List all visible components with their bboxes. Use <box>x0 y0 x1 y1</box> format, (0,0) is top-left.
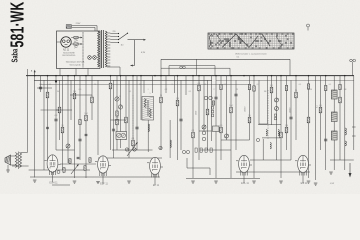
wire W56 <box>315 76 317 180</box>
wire W57 <box>320 76 322 150</box>
coil L5 <box>148 124 149 132</box>
choke D2 <box>331 112 337 122</box>
resistor R35 <box>198 85 201 91</box>
wire W4 <box>47 76 49 168</box>
svg-text:110/125/150/220V~: 110/125/150/220V~ <box>62 55 76 57</box>
resistor R54 <box>295 92 298 98</box>
wire W14 <box>97 80 99 155</box>
tube ECL 11 <box>236 155 252 183</box>
resistor R30 <box>71 37 80 39</box>
third bus <box>40 84 250 86</box>
resistor R40 <box>220 127 223 133</box>
IF transformer B1 <box>142 97 154 121</box>
ground antenna <box>6 169 10 171</box>
wire W52 <box>286 76 288 150</box>
wire drop 196 <box>196 59 198 75</box>
wire W9 <box>70 80 72 120</box>
wire W2 <box>40 76 42 92</box>
capacitor C-x3 <box>46 126 49 128</box>
svg-text:110: 110 <box>121 45 124 47</box>
svg-text:AZ 11: AZ 11 <box>63 49 70 52</box>
trimmer CT41 <box>225 134 229 138</box>
wire H1 <box>37 87 52 89</box>
capacitor C5 <box>54 118 57 120</box>
svg-text:0,2: 0,2 <box>165 89 168 91</box>
resistor R57 <box>319 107 322 113</box>
resistor R55 <box>307 117 310 123</box>
svg-text:2: 2 <box>214 89 215 91</box>
svg-text:1: 1 <box>150 93 151 95</box>
wire H13 <box>221 139 250 141</box>
voltage selector switch <box>110 31 128 47</box>
wire W18 <box>120 76 122 148</box>
svg-text:5000: 5000 <box>196 111 198 115</box>
svg-text:0,5W: 0,5W <box>330 183 334 185</box>
mains plug <box>66 25 71 29</box>
wire W38 <box>211 76 213 141</box>
resistor R37 <box>206 109 209 115</box>
resistor R7 <box>61 127 64 133</box>
wire W33 <box>185 76 187 95</box>
svg-text:2: 2 <box>66 84 67 86</box>
wire H5 <box>98 157 162 159</box>
svg-text:0,1: 0,1 <box>224 84 227 86</box>
junction blob <box>55 80 57 82</box>
wire W48 <box>262 139 264 160</box>
coil squiggle right 2 <box>345 141 346 146</box>
capacitor C43 <box>234 93 237 95</box>
capacitor C58 <box>324 138 327 140</box>
dashed divider <box>82 32 84 68</box>
wire W30 <box>169 120 171 158</box>
wire H4 <box>112 149 153 151</box>
pickup jack <box>180 66 183 69</box>
wire H15 <box>12 165 29 167</box>
wire W44 <box>249 76 251 140</box>
trimmer CT-A <box>115 97 119 101</box>
potentiometer arrow 2 <box>71 165 78 174</box>
jack right <box>350 59 353 62</box>
svg-text:2M: 2M <box>285 125 288 127</box>
wire W58 <box>325 76 327 170</box>
wire W24 <box>143 80 145 93</box>
svg-text:EBF 11: EBF 11 <box>100 183 108 186</box>
svg-text:0,5: 0,5 <box>79 89 82 91</box>
resistor R10 <box>73 93 76 99</box>
wire W59 <box>339 76 341 160</box>
coil L6 <box>170 140 171 148</box>
wire W42 <box>230 76 232 178</box>
tube ECH 11 <box>45 155 61 183</box>
resistor R27 <box>160 97 163 103</box>
wire W46 <box>258 80 260 124</box>
capacitor C11 <box>78 138 81 140</box>
svg-text:220V: 220V <box>76 23 81 25</box>
capacitor C39 <box>214 96 217 98</box>
antenna coil L1 <box>15 152 21 170</box>
resistor R51 <box>280 132 283 138</box>
wire H19 <box>52 184 70 186</box>
ground G11 <box>329 171 333 173</box>
resistor R52 <box>285 127 288 133</box>
wire W41 <box>226 76 228 140</box>
wire W28 <box>165 76 167 93</box>
wire W35 <box>198 76 200 160</box>
box to bus stubs <box>59 69 61 76</box>
ground G9 <box>307 180 311 182</box>
svg-text:25: 25 <box>119 96 121 98</box>
wire W10 <box>74 76 76 178</box>
potentiometer arrow <box>127 143 137 156</box>
svg-text:10000: 10000 <box>290 108 292 113</box>
wire W54 <box>295 76 297 140</box>
svg-text:Netzteil 581WK: Netzteil 581WK <box>63 52 76 55</box>
wire W49 <box>271 76 273 125</box>
wire W17 <box>116 76 118 150</box>
resistor R17 <box>116 119 119 125</box>
svg-text:0,1: 0,1 <box>329 84 332 86</box>
ground G8 <box>279 180 283 182</box>
wire W36 <box>203 76 205 131</box>
linkage dashed right <box>267 90 269 140</box>
wire H17 <box>330 159 354 161</box>
svg-text:6,3V: 6,3V <box>141 52 146 54</box>
svg-text:0,1: 0,1 <box>189 91 192 93</box>
wire H3 <box>56 109 72 111</box>
wire W43 <box>235 80 237 150</box>
wire W26 <box>147 120 149 152</box>
resistor R4 <box>46 92 49 98</box>
output transformer coils <box>258 114 281 149</box>
svg-text:0,2: 0,2 <box>257 84 260 86</box>
band switch chart <box>208 33 294 49</box>
wire H12 <box>56 149 75 151</box>
tube EBF 11 <box>95 156 111 184</box>
resistor R12 <box>85 115 88 121</box>
resistor R49 <box>270 87 273 93</box>
svg-text:Wellenschalter v. Lautsprecher: Wellenschalter v. Lautsprecherseite <box>235 53 267 56</box>
wire antenna link <box>11 155 17 157</box>
tube EF 11 <box>147 157 163 185</box>
small circle bottom mid-right <box>256 138 259 141</box>
svg-text:25: 25 <box>236 89 238 91</box>
wire W40 <box>220 76 222 160</box>
trimmer CT8 <box>66 144 70 148</box>
resistor R44 <box>248 117 251 123</box>
resistor R31 <box>176 100 179 106</box>
resistor R13 <box>91 97 94 103</box>
svg-text:EF 11: EF 11 <box>153 184 160 187</box>
trimmer pair B3 area <box>204 96 219 131</box>
svg-text:2M: 2M <box>73 91 76 93</box>
ground G1 <box>33 179 37 181</box>
wire H11 <box>186 178 260 180</box>
wire W6 <box>59 80 61 140</box>
antenna <box>5 155 11 165</box>
wire W5 <box>55 76 57 150</box>
svg-text:EM 11: EM 11 <box>301 182 308 185</box>
wire W23 <box>140 76 142 120</box>
wire W29 <box>173 76 175 93</box>
trimmer CT36 <box>202 125 206 129</box>
trimmer CT-B <box>118 105 122 109</box>
resistor R15 <box>109 83 112 89</box>
wire W32 <box>180 80 182 150</box>
wire W16 <box>113 80 115 158</box>
wire W39 <box>215 76 217 178</box>
switch row mid <box>182 148 212 175</box>
resistor R42 <box>230 107 233 113</box>
dial lamps <box>88 56 92 60</box>
wire H10 <box>236 171 310 173</box>
wire W51 <box>280 76 282 178</box>
wire W60 <box>344 76 346 170</box>
svg-text:0,1: 0,1 <box>49 84 52 86</box>
ground G2 <box>73 180 77 182</box>
wire W8 <box>67 76 69 163</box>
main HT bus <box>26 75 354 77</box>
heater wire bottom <box>107 66 120 68</box>
power supply box <box>57 31 101 69</box>
wire W12 <box>85 76 87 178</box>
switch circles mid <box>125 146 162 151</box>
linkage dashed <box>132 95 134 140</box>
capacitor C16 <box>112 128 115 130</box>
resistor row right <box>220 84 341 91</box>
rectifier tube AZ11 <box>57 37 72 47</box>
wire choke column <box>333 76 335 90</box>
wire H6 <box>200 149 231 151</box>
svg-text:50: 50 <box>57 91 59 93</box>
capacitor C-x1 <box>85 133 88 135</box>
svg-text:10000: 10000 <box>245 107 247 112</box>
wire H20 <box>259 123 268 125</box>
wire W3 <box>43 80 45 170</box>
rotated value labels <box>196 105 319 115</box>
value labels <box>39 83 347 185</box>
wire W7 <box>62 76 64 170</box>
svg-text:10: 10 <box>94 84 96 86</box>
capacitor C22 <box>135 126 138 128</box>
wire W22 <box>136 76 138 150</box>
wire H18 <box>41 109 60 111</box>
wire W19 <box>125 76 127 140</box>
ground G5 <box>191 180 195 182</box>
trimmer CT50 <box>275 98 279 102</box>
wire H7 <box>250 159 291 161</box>
wire W11 <box>79 76 81 160</box>
svg-text:50: 50 <box>310 89 312 91</box>
wire W31 <box>177 76 179 160</box>
secondary bus <box>34 79 212 81</box>
capacitor C2 <box>39 86 42 88</box>
ground G6 <box>214 180 218 182</box>
wire W37 <box>207 80 209 150</box>
antenna arrow a <box>31 70 36 76</box>
choke D3 <box>331 131 337 140</box>
speaker arrow <box>349 163 352 178</box>
wire H8 <box>29 169 90 171</box>
wire W61 <box>353 76 355 150</box>
resistor R34 <box>192 132 195 138</box>
wire H16 <box>199 130 212 132</box>
resistor R59 <box>339 97 342 103</box>
wire W45 <box>253 76 255 178</box>
ground G3 <box>96 181 100 183</box>
svg-text:50: 50 <box>139 84 141 86</box>
svg-text:220: 220 <box>113 31 116 33</box>
wire W34 <box>192 76 194 178</box>
wire W1 <box>34 76 36 178</box>
trimmer circles left col <box>202 131 206 135</box>
wire feedback line <box>169 65 215 67</box>
wire W25 <box>152 76 154 93</box>
bus junctions <box>34 75 346 77</box>
wire H14 <box>111 119 127 121</box>
resistor R21 <box>132 140 135 146</box>
svg-text:581·WK: 581·WK <box>8 1 28 47</box>
svg-text:3: 3 <box>172 84 173 86</box>
right ticks <box>352 126 356 128</box>
ground G4 <box>127 180 131 182</box>
svg-text:ECH 11: ECH 11 <box>49 182 58 185</box>
resistor R6 <box>58 107 61 113</box>
svg-text:1M: 1M <box>176 98 179 100</box>
wire W50 <box>276 76 278 160</box>
wire HT feed arrow <box>128 39 147 67</box>
wire W27 <box>160 76 162 150</box>
resistor R-gang <box>116 111 118 116</box>
svg-text:Saba: Saba <box>12 49 20 63</box>
ground G7 <box>252 180 256 182</box>
wire W15 <box>110 76 112 150</box>
coil squiggle right 1 <box>345 128 346 135</box>
wire output line <box>161 67 230 69</box>
svg-text:0,1: 0,1 <box>237 57 240 59</box>
power transformer T1 <box>98 30 111 68</box>
wire W47 <box>267 76 269 124</box>
wire W13 <box>91 76 93 120</box>
ground G10 <box>314 182 318 184</box>
svg-text:0,1: 0,1 <box>129 91 132 93</box>
wire AVC top line <box>161 58 290 60</box>
resistor R-x2 <box>79 120 81 125</box>
svg-text:ECL 11: ECL 11 <box>241 182 249 185</box>
resistor R19 <box>125 117 128 123</box>
resistor R31 <box>71 43 81 45</box>
wire W55 <box>308 76 310 178</box>
choke D1 <box>331 90 337 99</box>
callout top right <box>307 24 310 31</box>
svg-text:0,1: 0,1 <box>299 84 302 86</box>
capacitor C32 <box>179 118 182 120</box>
trimmer stack <box>275 107 279 111</box>
gang capacitor <box>116 132 127 140</box>
svg-text:50: 50 <box>204 84 206 86</box>
tube EM 11 <box>295 155 311 183</box>
wire W53 <box>290 80 292 160</box>
capacitor C53 <box>289 116 292 118</box>
wire H9 <box>30 176 160 178</box>
wire W20 <box>128 80 130 158</box>
wire W21 <box>132 76 134 150</box>
svg-text:Skalenlampen 6,3V 0,3A: Skalenlampen 6,3V 0,3A <box>66 61 85 64</box>
wire H2 <box>70 94 92 96</box>
resistor cluster A <box>57 157 96 173</box>
